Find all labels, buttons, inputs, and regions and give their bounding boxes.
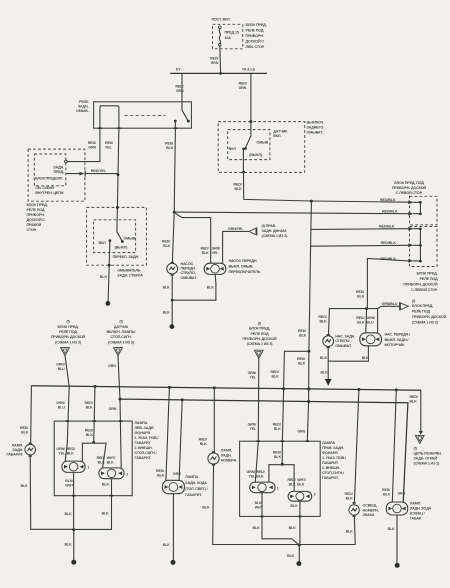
bus1 right corner down to T5 — [420, 390, 422, 431]
svg-text:НОМЕРН.: НОМЕРН. — [363, 508, 379, 512]
svg-text:ЛАМПА: ЛАМПА — [185, 475, 198, 479]
svg-text:GRN: GRN — [108, 364, 116, 368]
svg-text:RED/: RED/ — [20, 426, 28, 430]
svg-text:BLK: BLK — [346, 497, 354, 501]
svg-text:ПРИБОРН. ДОСКОЙ: ПРИБОРН. ДОСКОЙ — [242, 337, 277, 341]
svg-text:ПРАВ. ЗАДН.: ПРАВ. ЗАДН. — [322, 446, 344, 450]
wire SW1 output BLK — [108, 241, 110, 302]
svg-text:1. УКАЗ. ПОВ./: 1. УКАЗ. ПОВ./ — [135, 436, 159, 440]
svg-text:ЛЕВ. ЗАДН.: ЛЕВ. ЗАДН. — [135, 426, 155, 430]
svg-text:РЕЛЕ ПОД: РЕЛЕ ПОД — [412, 310, 430, 314]
svg-text:ОМЫВ.: ОМЫВ. — [76, 109, 89, 113]
svg-text:НАС. ЗАДН.: НАС. ЗАДН. — [335, 334, 355, 338]
svg-text:ОМЫВАТ.: ОМЫВАТ. — [335, 344, 352, 348]
right tail lamp assembly box — [240, 441, 321, 516]
fuse panel connector box B1 (dashed) — [410, 196, 438, 225]
svg-text:2. ВНЕШН.: 2. ВНЕШН. — [322, 466, 340, 470]
svg-text:BLK: BLK — [21, 431, 29, 435]
svg-text:BLK: BLK — [357, 295, 365, 299]
svg-text:ЗАДН.: ЗАДН. — [53, 165, 64, 169]
svg-text:BLU: BLU — [58, 367, 66, 371]
ground G401 — [71, 560, 76, 565]
svg-text:СТЕКЛО-: СТЕКЛО- — [335, 339, 351, 343]
svg-text:ЗАДН. ХОДА: ЗАДН. ХОДА — [185, 481, 207, 485]
svg-text:GRN: GRN — [109, 407, 117, 411]
svg-text:1. УКАЗ. ПОВ./: 1. УКАЗ. ПОВ./ — [322, 456, 346, 460]
svg-text:РЕЛЕ ПОД: РЕЛЕ ПОД — [420, 277, 438, 281]
relay K1 actuating dashed link — [125, 115, 166, 117]
license plate lamp L6 — [354, 390, 359, 503]
svg-text:(СХЕМ.) /: (СХЕМ.) / — [410, 512, 425, 516]
svg-text:RED/: RED/ — [410, 395, 418, 399]
wire jog from relay output to washer motor — [174, 212, 211, 263]
svg-text:(СХЕМА 1 ИЗ 3): (СХЕМА 1 ИЗ 3) — [55, 340, 82, 344]
wire line A to B2 pin1 — [311, 228, 408, 231]
svg-text:СТОП-СИГН./: СТОП-СИГН./ — [135, 451, 157, 455]
svg-text:ВЫКЛЮЧ.: ВЫКЛЮЧ. — [307, 120, 325, 124]
svg-text:СТОП-СИГН.: СТОП-СИГН. — [110, 335, 131, 339]
svg-text:BLK: BLK — [287, 554, 295, 558]
svg-text:RED/: RED/ — [199, 438, 207, 442]
svg-text:RED/: RED/ — [256, 470, 264, 474]
wire line B to B2 pin2 — [311, 244, 409, 247]
relay K1 switch — [182, 110, 188, 120]
svg-text:2. ВНЕШН.: 2. ВНЕШН. — [135, 446, 153, 450]
svg-text:BLK: BLK — [274, 427, 282, 431]
svg-text:RED/: RED/ — [273, 423, 281, 427]
svg-text:ГАБАРИТ.: ГАБАРИТ. — [135, 441, 152, 445]
svg-text:BLK: BLK — [272, 375, 280, 379]
svg-text:(СХЕМА 1 ИЗ 3): (СХЕМА 1 ИЗ 3) — [108, 340, 135, 344]
node: V1 branch to bus1 — [307, 350, 310, 353]
svg-text:RED/: RED/ — [288, 478, 296, 482]
svg-text:БЛОК ПРЕД,: БЛОК ПРЕД, — [416, 272, 437, 276]
svg-text:BLK: BLK — [289, 483, 297, 487]
wires front washer grounds BLK — [171, 276, 173, 300]
svg-text:BLK: BLK — [86, 433, 94, 437]
svg-text:BLK: BLK — [98, 461, 106, 465]
svg-text:ЗАДН.: ЗАДН. — [78, 105, 89, 109]
svg-text:БЛОК ПРЕД, ПОД: БЛОК ПРЕД, ПОД — [394, 181, 424, 185]
svg-text:(f) ПРАВ.: (f) ПРАВ. — [262, 224, 277, 228]
svg-text:РЕЛЕ: РЕЛЕ — [79, 100, 89, 104]
svg-text:ЛАМПА: ЛАМПА — [322, 441, 335, 445]
svg-text:РЕЛЕ ПОД: РЕЛЕ ПОД — [59, 330, 77, 334]
ground rail — [213, 544, 356, 546]
svg-text:ДОСКОЙ С: ДОСКОЙ С — [27, 218, 46, 222]
svg-text:ФОНАРЯ: ФОНАРЯ — [322, 451, 338, 455]
svg-text:ВКЛ: ВКЛ — [229, 147, 237, 151]
svg-text:RED/: RED/ — [356, 316, 364, 320]
svg-text:(f): (f) — [414, 447, 418, 451]
svg-text:МОТОРЧИК: МОТОРЧИК — [385, 343, 406, 347]
svg-text:WHT: WHT — [255, 506, 264, 510]
svg-text:RED/: RED/ — [210, 57, 218, 61]
bus1 RED/BLK — [31, 386, 420, 390]
svg-text:ПРИБОРН.: ПРИБОРН. — [246, 34, 264, 38]
bulb L3 ground BLK — [74, 479, 111, 530]
node: trigger line tap — [310, 200, 313, 203]
washer switch SW1 inner dashed box — [94, 220, 136, 253]
washer switch SW1 contacts and blade — [116, 207, 119, 231]
cargo lamp L9 — [392, 390, 396, 502]
svg-text:(СХЕМА 1 ИЗ 3): (СХЕМА 1 ИЗ 3) — [247, 342, 274, 346]
svg-text:BLK: BLK — [289, 526, 297, 530]
svg-text:ОМЫВ: ОМЫВ — [123, 237, 135, 241]
svg-text:ОМЫВАТ.: ОМЫВАТ. — [181, 276, 198, 280]
svg-text:ЗАДН.: ЗАДН. — [221, 454, 232, 458]
wire front washer motor GRN/YEL to connector — [223, 231, 250, 263]
fuse panel connector box B2 (dashed) — [410, 227, 438, 267]
svg-text:RED/BLK: RED/BLK — [381, 241, 397, 245]
svg-text:GRN: GRN — [173, 472, 181, 476]
svg-text:ВНУТРЕН. ЦЕПИ: ВНУТРЕН. ЦЕПИ — [35, 191, 64, 195]
fuse block (left, dashed outer) — [28, 149, 85, 201]
wire bus to relay switch contact — [181, 73, 183, 110]
svg-text:WHT/: WHT/ — [107, 456, 116, 460]
bulb L2 (turn/tail) — [62, 461, 85, 472]
wire relay coil pin1 to fuse block, RED/GRN — [67, 128, 100, 161]
svg-text:2: 2 — [314, 493, 316, 497]
ground G404 — [395, 563, 400, 568]
svg-text:BLK: BLK — [357, 321, 365, 325]
svg-text:ВКЛ.: ВКЛ. — [273, 134, 281, 138]
svg-text:GRN: GRN — [211, 61, 219, 65]
svg-text:RED/BLK: RED/BLK — [380, 198, 396, 202]
wire V1: trigger tap down the right side — [307, 201, 311, 441]
svg-text:ЗАДН. ХОДА: ЗАДН. ХОДА — [410, 507, 432, 511]
relay K1 coil — [100, 106, 119, 128]
svg-text:ПЕРЕКЛЮЧАТЕЛЬ: ПЕРЕКЛЮЧАТЕЛЬ — [229, 270, 261, 274]
svg-text:BLK: BLK — [256, 475, 264, 479]
svg-text:ВЫКЛ. ЗАДН./: ВЫКЛ. ЗАДН./ — [385, 338, 409, 342]
svg-text:РЕЛЕ ПОД: РЕЛЕ ПОД — [246, 29, 264, 33]
svg-text:BLK: BLK — [207, 286, 215, 290]
svg-text:1: 1 — [277, 486, 279, 490]
svg-text:RED/: RED/ — [382, 488, 390, 492]
svg-text:GRN/: GRN/ — [248, 423, 257, 427]
hot bus TA & LE — [170, 72, 267, 74]
svg-text:RED/: RED/ — [67, 447, 75, 451]
svg-text:BLK: BLK — [163, 286, 171, 290]
svg-text:(СХЕМА 1 ИЗ 3): (СХЕМА 1 ИЗ 3) — [262, 234, 289, 238]
bulb L3 (stop/tail) — [99, 468, 124, 479]
svg-text:GRN/: GRN/ — [56, 447, 65, 451]
svg-text:ПРЕД 15: ПРЕД 15 — [225, 31, 239, 35]
fuse F1 element — [219, 26, 222, 29]
svg-text:РЕЛЕ ПОД: РЕЛЕ ПОД — [27, 208, 45, 212]
svg-text:BLK: BLK — [100, 275, 108, 279]
svg-text:С ЛЕВОЙ СТОР.: С ЛЕВОЙ СТОР. — [411, 288, 438, 292]
svg-text:BLK: BLK — [235, 187, 243, 191]
svg-text:ЛЕВ. СТОР.: ЛЕВ. СТОР. — [246, 45, 265, 49]
svg-text:(f): (f) — [258, 321, 262, 325]
node: relay output junction — [173, 211, 176, 214]
svg-text:ПРИБОРН. ДОСКОЙ: ПРИБОРН. ДОСКОЙ — [412, 315, 447, 319]
fuse F1 (dashed junction-block box) — [213, 24, 243, 49]
svg-text:BLK: BLK — [202, 506, 210, 510]
wire RED/BLK T split (right box) — [281, 441, 283, 464]
svg-text:ЗАДН. ОГНЕЙ: ЗАДН. ОГНЕЙ — [414, 457, 438, 461]
svg-text:YEL: YEL — [248, 475, 256, 479]
svg-text:ПОСТ. ВКЛ.: ПОСТ. ВКЛ. — [212, 17, 231, 21]
edge ticks on component boxes — [66, 128, 309, 516]
svg-text:ГАБАРИТ.: ГАБАРИТ. — [322, 476, 339, 480]
svg-text:ЛАМП.: ЛАМП. — [410, 502, 421, 506]
svg-text:BLK: BLK — [388, 527, 396, 531]
svg-text:TA & LE: TA & LE — [242, 68, 256, 72]
svg-text:YEL: YEL — [249, 427, 257, 431]
svg-text:ВЫКЛ. ОМЫВ.: ВЫКЛ. ОМЫВ. — [229, 264, 254, 268]
washer switch SW1 outer dashed box — [87, 207, 147, 265]
bulb L8 ground BLK — [299, 501, 301, 545]
svg-text:ГАБАР.: ГАБАР. — [410, 517, 422, 521]
svg-text:BLK: BLK — [21, 484, 29, 488]
svg-text:(f): (f) — [412, 299, 416, 303]
wire bus to trigger switch, RED/GRN — [250, 73, 252, 121]
svg-text:BLK: BLK — [291, 504, 299, 508]
backup lamp L4 — [166, 387, 170, 480]
wire relay coil pin2 down, RED/YEL — [117, 128, 119, 207]
side marker lamp L1 — [29, 443, 32, 445]
svg-text:БЛОК ПРЕД,: БЛОК ПРЕД, — [412, 304, 433, 308]
wire relay output to fuse panel, RED/BLK — [174, 212, 408, 214]
svg-text:BLK: BLK — [321, 371, 329, 375]
wire rail splice to ground G403 — [298, 545, 300, 562]
svg-text:RED/: RED/ — [97, 456, 105, 460]
triangle connector T2 — [114, 348, 123, 356]
svg-text:РЕЛЕ ПОД: РЕЛЕ ПОД — [251, 332, 269, 336]
svg-text:GRN: GRN — [398, 492, 406, 496]
svg-text:ЗАДН. СТЕКЛА: ЗАДН. СТЕКЛА — [117, 274, 143, 278]
svg-text:WHT/: WHT/ — [297, 478, 306, 482]
svg-text:BLK: BLK — [65, 542, 73, 546]
trigger switch SW2 contacts and blade — [250, 122, 252, 137]
svg-text:1: 1 — [87, 466, 89, 470]
svg-text:ФОНАРЯ: ФОНАРЯ — [135, 431, 151, 435]
svg-text:ГАБАРИТ.: ГАБАРИТ. — [185, 493, 202, 497]
svg-text:RED/: RED/ — [162, 240, 170, 244]
svg-text:YEL: YEL — [249, 376, 257, 380]
bulb L8 (stop/tail) — [288, 491, 312, 501]
ground splice G301 — [170, 324, 175, 329]
svg-text:БЛОК ПРЕД,: БЛОК ПРЕД, — [57, 325, 78, 329]
wire SW2 output down, RED/BLK — [242, 149, 244, 172]
svg-text:ОМЫВАТ.: ОМЫВАТ. — [307, 130, 324, 134]
svg-text:ВКЛЮЧ. ЛАМПЫ: ВКЛЮЧ. ЛАМПЫ — [107, 330, 136, 334]
svg-text:ЗАДН.: ЗАДН. — [12, 448, 23, 452]
svg-text:10A: 10A — [225, 36, 232, 40]
svg-text:БЛОК ПРЕД,: БЛОК ПРЕД, — [246, 23, 267, 27]
svg-text:НАСОС ПЕРЕДН.: НАСОС ПЕРЕДН. — [229, 259, 258, 263]
node taps on bus1 — [94, 385, 97, 388]
svg-text:(СХЕМА 1 ИЗ 3): (СХЕМА 1 ИЗ 3) — [412, 320, 439, 324]
svg-text:СТЕКЛО-: СТЕКЛО- — [181, 271, 197, 275]
wire fuse to hot bus, RED/GRN — [219, 46, 222, 73]
svg-text:ПРЕД.: ПРЕД. — [54, 170, 65, 174]
wires rear washer grounds BLK — [328, 346, 368, 361]
svg-text:ЛАМПА: ЛАМПА — [135, 421, 148, 425]
svg-text:RED/BLK: RED/BLK — [379, 225, 395, 229]
svg-text:BLK: BLK — [202, 251, 210, 255]
svg-text:БЛОК ПРЕДОХР.: БЛОК ПРЕДОХР. — [35, 176, 63, 180]
backup lamp ground — [172, 494, 174, 561]
svg-text:BLK: BLK — [200, 442, 208, 446]
svg-text:RED/: RED/ — [298, 329, 306, 333]
svg-text:BLK: BLK — [102, 512, 110, 516]
ground G402 — [171, 560, 176, 565]
svg-text:RED/: RED/ — [165, 142, 173, 146]
svg-text:GRN: GRN — [176, 89, 184, 93]
svg-text:СМ. СХЕМУ: СМ. СХЕМУ — [35, 186, 55, 190]
rear washer motor M4 — [365, 309, 368, 333]
svg-text:НАС. ПЕРЕДН./: НАС. ПЕРЕДН./ — [385, 332, 410, 336]
svg-text:BLK: BLK — [163, 311, 171, 315]
svg-text:БЛОК ПРЕД,: БЛОК ПРЕД, — [27, 203, 48, 207]
svg-text:GRN/BLU: GRN/BLU — [382, 302, 398, 306]
svg-text:RED/: RED/ — [85, 429, 93, 433]
node: SW1 feed entering box — [116, 206, 119, 209]
wire rear washer horizontal — [329, 306, 400, 308]
svg-text:(ВЫКЛ): (ВЫКЛ) — [249, 153, 263, 157]
svg-text:ДАТЧИК: ДАТЧИК — [273, 129, 288, 133]
svg-text:BLK/: BLK/ — [65, 479, 73, 483]
ground splice (SW1) — [106, 301, 111, 306]
svg-text:BLK: BLK — [102, 482, 110, 486]
bulb L7 ground BLK/WHT — [262, 493, 299, 545]
svg-text:ПЕРЕКЛ. ЗАДН.: ПЕРЕКЛ. ЗАДН. — [113, 255, 140, 259]
svg-text:GRN/: GRN/ — [247, 470, 256, 474]
wire T2 GRN down to bus2 and bulb — [118, 356, 121, 468]
bulb L7 (turn/tail) — [250, 482, 275, 493]
svg-text:BLK: BLK — [320, 356, 328, 360]
svg-text:BLK/: BLK/ — [255, 501, 263, 505]
connector arrow A1 (GRN/YEL) — [249, 228, 256, 235]
svg-text:RED/: RED/ — [273, 451, 281, 455]
svg-text:ПЕРЕДН.: ПЕРЕДН. — [181, 267, 196, 271]
svg-text:BLU: BLU — [58, 406, 66, 410]
svg-text:BLK: BLK — [67, 452, 75, 456]
svg-text:GRN/: GRN/ — [366, 316, 375, 320]
svg-text:GRN/: GRN/ — [56, 363, 65, 367]
svg-text:BLK: BLK — [362, 356, 370, 360]
svg-text:БЛОК ПРЕД,: БЛОК ПРЕД, — [249, 327, 270, 331]
wire side marker ground BLK — [30, 457, 73, 529]
triangle connector T1 — [61, 348, 70, 356]
cargo lamp ground — [396, 515, 398, 564]
svg-text:BLK: BLK — [297, 483, 305, 487]
svg-text:(ТОЛ. СВЕТ) /: (ТОЛ. СВЕТ) / — [185, 487, 207, 491]
rear washer pump M3, RED/BLK feed — [328, 309, 331, 335]
svg-text:ГАБАРИТ.: ГАБАРИТ. — [135, 456, 152, 460]
triangle connector T5 — [415, 435, 424, 443]
svg-text:BLK: BLK — [163, 543, 171, 547]
svg-text:RED/: RED/ — [297, 357, 305, 361]
svg-text:YEL: YEL — [105, 146, 113, 150]
wire T1 to left lamp GRN/BLU — [65, 356, 69, 461]
svg-text:GRN/: GRN/ — [248, 371, 257, 375]
wire splice to ground G401 — [73, 530, 75, 561]
front washer motor M2 — [204, 263, 226, 274]
ground arrow onto bus1 — [325, 379, 332, 386]
svg-text:BLK: BLK — [299, 334, 307, 338]
svg-text:BLK: BLK — [157, 474, 165, 478]
svg-text:RED/: RED/ — [356, 290, 364, 294]
svg-text:RED/: RED/ — [201, 246, 209, 250]
svg-text:ДОСКОЙ С: ДОСКОЙ С — [246, 40, 265, 44]
svg-text:С ЛЕВОЙ СТОР.: С ЛЕВОЙ СТОР. — [396, 191, 423, 195]
svg-text:ГАБАРИТ.: ГАБАРИТ. — [7, 453, 24, 457]
node: RED/YEL junction — [117, 173, 120, 176]
fuse block inner dashed box — [34, 154, 66, 186]
svg-text:RED/: RED/ — [85, 401, 93, 405]
svg-text:BLK: BLK — [346, 529, 354, 533]
svg-text:RED/: RED/ — [233, 182, 241, 186]
trigger switch SW2 inner dashed box — [228, 130, 270, 160]
svg-text:BLK: BLK — [65, 512, 73, 516]
svg-text:НАСОС: НАСОС — [181, 262, 194, 266]
svg-text:(f): (f) — [119, 320, 123, 324]
svg-text:(СХЕМА 1 ИЗ 2): (СХЕМА 1 ИЗ 2) — [414, 462, 441, 466]
svg-text:RED/: RED/ — [105, 141, 113, 145]
svg-text:YEL: YEL — [58, 452, 66, 456]
svg-text:RED/: RED/ — [88, 141, 96, 145]
bus2 GRN — [120, 399, 408, 502]
svg-text:ОМЫВАТЕЛЬ: ОМЫВАТЕЛЬ — [117, 269, 141, 273]
svg-text:BLK: BLK — [166, 146, 174, 150]
svg-text:BLK: BLK — [86, 406, 94, 410]
fuse block terminal 2 wire with inline connector — [66, 173, 79, 175]
ground G403 — [296, 561, 301, 566]
svg-text:EY: EY — [176, 67, 181, 71]
svg-text:GRN/YEL: GRN/YEL — [228, 227, 244, 231]
triangle connector T3 — [254, 350, 263, 358]
license plate lamp ground — [353, 517, 356, 545]
svg-text:RED/: RED/ — [239, 81, 247, 85]
svg-text:ЛАМП.: ЛАМП. — [221, 449, 232, 453]
svg-text:BLK: BLK — [320, 320, 328, 324]
svg-text:ПРИБОРН. ДОСКОЙ: ПРИБОРН. ДОСКОЙ — [392, 186, 427, 190]
svg-text:(f): (f) — [66, 320, 70, 324]
svg-text:RED/: RED/ — [156, 469, 164, 473]
svg-text:ЗНАКА: ЗНАКА — [363, 513, 375, 517]
svg-text:СТОР.: СТОР. — [27, 228, 37, 232]
svg-text:ЗАДН. ДИНАМ.: ЗАДН. ДИНАМ. — [262, 229, 287, 233]
svg-text:RED/: RED/ — [318, 315, 326, 319]
wire relay switch output down, RED/BLK — [174, 128, 175, 212]
svg-text:RED/YEL: RED/YEL — [91, 169, 107, 173]
svg-text:YEL: YEL — [212, 251, 220, 255]
svg-text:GRN: GRN — [297, 429, 305, 433]
svg-text:BLK: BLK — [383, 493, 391, 497]
svg-text:(ВЫКЛ): (ВЫКЛ) — [115, 245, 129, 249]
node: fuse tap on bus — [219, 72, 222, 75]
svg-text:ЛАМП.: ЛАМП. — [12, 443, 23, 447]
svg-text:BLK: BLK — [298, 362, 306, 366]
front washer pump M1, RED/BLK feed — [172, 212, 174, 262]
svg-text:ГАБАРИТ.: ГАБАРИТ. — [322, 461, 339, 465]
svg-text:RED/BLK: RED/BLK — [382, 210, 398, 214]
bus1 left corner to side marker — [30, 386, 33, 443]
relay K1 box — [94, 102, 192, 128]
svg-text:BLK: BLK — [274, 455, 282, 459]
wire line C to B2 pin3 with drop to rear washer — [367, 258, 408, 308]
svg-text:ПРИБОРН.: ПРИБОРН. — [27, 213, 45, 217]
svg-text:GRN: GRN — [239, 86, 247, 90]
node: rear washer feed junction — [365, 307, 368, 310]
svg-text:ПРИБОРН. ДОСКОЙ: ПРИБОРН. ДОСКОЙ — [51, 335, 86, 339]
wire RED/BLK from bus1 with T split — [94, 387, 95, 443]
